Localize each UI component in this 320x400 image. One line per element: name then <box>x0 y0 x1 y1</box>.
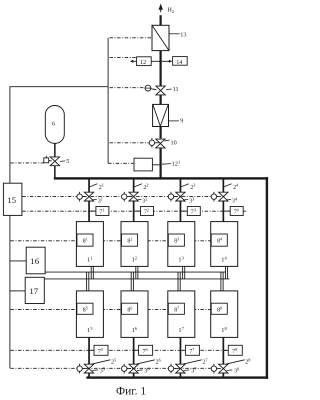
wire: stub to sensor 7-8 <box>224 349 228 351</box>
wire: stub to sensor 7-4 <box>224 210 230 212</box>
wire: stub to sensor 7-5 <box>90 349 94 351</box>
valve 3-8 actuator <box>211 364 221 374</box>
wire: right return line (thick) <box>266 177 268 379</box>
leader and label 3-4 <box>227 197 238 205</box>
electrolysis module 1-3 <box>168 222 195 267</box>
valve 3-7 <box>176 364 185 373</box>
control line to 13 <box>110 37 152 39</box>
wire: H2 outlet arrow <box>159 4 163 13</box>
wire: pipe unit 9 to valve 10 <box>160 127 162 139</box>
wire: module 1-1 lower legs <box>91 266 93 279</box>
wire: module 1-7 upper legs <box>178 272 180 291</box>
sensor 7-3 box <box>187 207 200 216</box>
wire: stub to sensor 7-6 <box>134 349 138 351</box>
wire: column 3 top drop pipe <box>180 179 182 221</box>
wire: module 1-8 upper legs <box>221 272 223 291</box>
control line to valve 5 <box>10 162 43 164</box>
valve 3-6 actuator <box>122 364 132 374</box>
unit 8-7 box <box>168 303 184 314</box>
leader and label 9 <box>169 118 184 125</box>
wire: stub to sensor 7-7 <box>181 349 185 351</box>
valve 3-4 actuator <box>211 192 221 202</box>
leader and label 5 <box>60 158 69 165</box>
wire: column 4 bottom drop pipe <box>223 337 225 376</box>
unit 8-5 box <box>77 303 93 314</box>
wire: left control riser <box>9 215 11 368</box>
svg-text:9: 9 <box>180 118 183 125</box>
valve 10 actuator <box>149 138 159 148</box>
leader and label 13 <box>169 31 186 38</box>
valve 3-3 actuator <box>168 192 178 202</box>
sensor 7-8 box <box>228 345 242 355</box>
wire: bus from 16 <box>45 271 225 273</box>
svg-text:11: 11 <box>173 86 179 93</box>
unit 12-prime box <box>134 158 152 171</box>
valve 3-1 <box>84 192 93 201</box>
valve 3-8 <box>219 364 228 373</box>
electrolysis module 1-8 <box>211 291 238 338</box>
svg-text:6: 6 <box>52 120 55 127</box>
control line to 12 <box>110 57 137 59</box>
wire: pipe valve 10 to manifold <box>160 148 162 178</box>
wire: column 4 top drop pipe <box>223 179 225 221</box>
control line to valve 11 <box>110 87 145 89</box>
branch tap 2-7 leader <box>183 360 202 364</box>
svg-text:16: 16 <box>30 256 39 266</box>
wire: stub 12-prime to pipe <box>152 164 159 166</box>
unit 8-8 box <box>211 303 227 314</box>
unit 8-2 box <box>122 234 138 246</box>
wire: valve 5 to manifold <box>54 166 56 178</box>
svg-text:10: 10 <box>171 139 177 146</box>
leader and label 3-2 <box>137 197 148 205</box>
control line row1 units 8 <box>10 240 211 242</box>
sensor circle (pressure) at valve 11 <box>145 85 156 91</box>
unit 9 (separator, rect with V) <box>153 104 169 126</box>
control line to valve 10 <box>110 142 149 144</box>
control line row1 sensors 7 <box>22 210 246 212</box>
electrolysis module 1-6 <box>121 291 148 338</box>
unit 8-6 box <box>122 303 138 314</box>
wire: stub to sensor 7-1 <box>90 210 96 212</box>
controller 15 <box>3 183 22 215</box>
control line to 12-prime <box>108 162 134 164</box>
valve 5 actuator (square) <box>44 156 52 163</box>
wire: stub to sensor 7-3 <box>181 210 187 212</box>
tank 6 (capsule) <box>45 106 64 144</box>
wire: module 1-2 lower legs <box>136 266 138 279</box>
svg-text:13: 13 <box>180 31 186 38</box>
leader and label 3-7 <box>184 366 198 374</box>
leader and label 3-6 <box>137 366 151 374</box>
wire: module 1-4 lower legs <box>226 266 228 279</box>
electrolysis module 1-4 <box>211 222 238 267</box>
wire: bottom manifold (thick) <box>86 376 268 378</box>
leader and label 3-5 <box>92 366 105 374</box>
sensor 12 box <box>137 57 152 66</box>
sensor 7-5 box <box>94 345 108 355</box>
valve 3-2 <box>129 192 138 201</box>
control line row1 valves <box>22 196 211 198</box>
wire: link to 17 <box>10 290 25 292</box>
leader and label 3-3 <box>184 197 195 205</box>
wire: column 3 bottom drop pipe <box>180 337 182 376</box>
leader and label 11 <box>166 86 178 93</box>
valve 3-5 <box>84 364 93 373</box>
wire: bus from 17 <box>44 278 229 280</box>
wire: column 1 top drop pipe <box>88 179 90 221</box>
wire: module 1-3 lower legs <box>183 266 185 279</box>
wire: loop 15 up and right <box>10 87 108 184</box>
branch tap 2-5 leader <box>91 360 110 364</box>
wire: column 1 bottom drop pipe <box>88 337 90 376</box>
valve 3-4 <box>219 192 228 201</box>
wire: module 1-5 upper legs <box>87 272 89 291</box>
leader and label 10 <box>165 139 177 146</box>
valve 3-3 <box>176 192 185 201</box>
electrolysis module 1-1 <box>76 222 103 267</box>
branch tap 2-2 leader <box>134 184 142 187</box>
valve 5 <box>50 157 59 166</box>
leader and label 3-8 <box>227 366 240 374</box>
sensor 7-7 box <box>185 345 199 355</box>
sensor 7-4 box <box>230 207 243 216</box>
branch tap 2-8 leader <box>226 360 245 364</box>
wire: tap with arrow to 14 <box>162 60 173 63</box>
branch tap 2-1 leader <box>90 184 98 187</box>
wire: control bus vertical <box>107 38 109 164</box>
wire: link to 16 <box>10 260 26 262</box>
electrolysis module 1-2 <box>121 222 148 267</box>
branch tap 2-6 leader <box>136 360 155 364</box>
unit 8-4 box <box>211 234 227 246</box>
valve 3-5 actuator <box>77 364 87 374</box>
arrow out of 12 <box>130 60 137 63</box>
wire: tank 6 to valve 5 <box>54 143 56 157</box>
valve 3-7 actuator <box>168 364 178 374</box>
wire: top manifold (thick) <box>54 177 268 179</box>
unit 8-1 box <box>77 234 93 246</box>
electrolysis module 1-5 <box>76 291 103 338</box>
valve 3-1 actuator <box>77 192 87 202</box>
unit 13 (gas dryer, rect with diagonal) <box>152 25 169 50</box>
control line row2 sensors 7 <box>10 349 243 351</box>
sensor 7-1 box <box>96 207 109 216</box>
svg-text:12: 12 <box>140 59 146 66</box>
valve 10 <box>156 139 165 148</box>
svg-text:5: 5 <box>66 158 69 165</box>
wire: tap to 12 <box>151 60 159 62</box>
wire: main pipe 13 to valve 11 <box>160 51 162 87</box>
svg-text:Фиг. 1: Фиг. 1 <box>116 386 146 398</box>
sensor 7-2 box <box>141 207 154 216</box>
branch tap 2-3 leader <box>181 184 189 187</box>
wire: pipe arrow to unit 13 <box>160 15 162 25</box>
valve 3-6 <box>129 364 138 373</box>
power source 17 <box>25 277 44 303</box>
wire: column 2 top drop pipe <box>133 179 135 221</box>
leader and label 12-prime <box>162 160 180 168</box>
valve 3-2 actuator <box>122 192 132 202</box>
electrolysis module 1-7 <box>168 291 195 338</box>
svg-text:15: 15 <box>7 195 16 205</box>
power source 16 <box>26 247 45 274</box>
sensor 7-6 box <box>139 345 153 355</box>
svg-text:14: 14 <box>176 59 182 66</box>
svg-text:17: 17 <box>29 286 38 296</box>
control line row2 valves <box>10 367 210 369</box>
wire: pipe valve 11 to unit 9 <box>160 95 162 105</box>
unit 8-3 box <box>168 234 184 246</box>
leader and label 3-1 <box>92 197 103 205</box>
wire: module 1-6 upper legs <box>131 272 133 291</box>
sensor 14 box <box>173 57 188 66</box>
branch tap 2-4 leader <box>224 184 232 187</box>
wire: stub to sensor 7-2 <box>134 210 140 212</box>
wire: column 2 bottom drop pipe <box>133 337 135 376</box>
valve 11 <box>156 86 165 95</box>
control line row2 units 8 <box>10 308 211 310</box>
